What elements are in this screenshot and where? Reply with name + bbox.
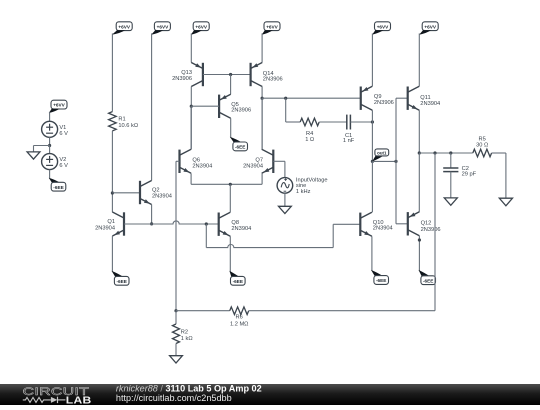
wire Q7 collector [261, 98, 263, 149]
resistor R4 [300, 118, 319, 126]
wire base rail down-right [206, 224, 360, 248]
svg-text:-6EE: -6EE [233, 279, 243, 284]
svg-text:Q2: Q2 [152, 188, 160, 194]
svg-text:+6VV: +6VV [195, 24, 207, 29]
wire Q7 emitter [261, 173, 263, 184]
power flag +6VV (Q13) [191, 22, 209, 35]
node R1/Q2 base/Q1 collector [111, 191, 114, 194]
footer url text [116, 393, 232, 403]
label R6 [230, 315, 248, 328]
node R4/C1 branch [284, 97, 287, 100]
label Q2 [152, 188, 172, 200]
ground (C2) [444, 198, 457, 205]
svg-text:R1: R1 [118, 117, 125, 123]
label Q6 [192, 157, 212, 169]
wire Q9 collector [371, 110, 373, 161]
wire R2 top [175, 311, 177, 324]
svg-text:2N3904: 2N3904 [373, 226, 393, 232]
node Q14 collector / Q7 collector / wire [261, 97, 264, 100]
wire Q10 emitter [371, 236, 373, 270]
wire Q2 emitter [151, 205, 153, 224]
wire Q6 base [176, 161, 180, 310]
resistor R2 [173, 324, 180, 344]
label Q5 [231, 102, 251, 114]
svg-text:2N3906: 2N3906 [172, 76, 192, 82]
resistor R1 [109, 112, 117, 131]
svg-text:Q12: Q12 [421, 220, 432, 226]
power flag +6VV (Q2) [151, 22, 170, 35]
wire Q2 base [112, 192, 140, 194]
svg-text:+6VV: +6VV [157, 24, 169, 29]
label Q7 [243, 157, 263, 169]
voltage source V1 [42, 121, 58, 137]
transistor Q9 [361, 86, 373, 110]
wire Q6 emitter [190, 173, 192, 184]
svg-text:rknicker88 / 3110 Lab 5 Op Amp: rknicker88 / 3110 Lab 5 Op Amp 02 [116, 383, 262, 393]
svg-text:2N3904: 2N3904 [95, 226, 115, 232]
transistor Q1 [112, 212, 124, 236]
svg-text:2N3904: 2N3904 [231, 226, 251, 232]
svg-text:+6VV: +6VV [424, 24, 436, 29]
wire R6 left [176, 310, 230, 312]
source InputVoltage [277, 178, 293, 194]
transistor Q7 [262, 149, 274, 173]
ground (supply) [27, 152, 40, 159]
svg-text:2N3906: 2N3906 [263, 76, 283, 82]
svg-text:2N3904: 2N3904 [243, 164, 263, 170]
ground (InputVoltage) [279, 206, 292, 213]
label Q12 [421, 220, 441, 233]
label R1 [118, 117, 138, 129]
wire Q13-Q14 base rail [203, 74, 251, 76]
wire Q14-Q9 [262, 97, 361, 99]
wire Q13 emitter [190, 33, 192, 62]
wire R4 branch [286, 98, 301, 122]
svg-text:-6EE: -6EE [423, 278, 433, 283]
wire Q8 collector [229, 184, 231, 212]
wire C1 right [350, 121, 372, 123]
wire Q6 collector [190, 106, 192, 149]
wire out1 [372, 160, 396, 162]
wire Q2 collector [151, 33, 153, 180]
node C2 takeoff [449, 151, 452, 154]
svg-text:http://circuitlab.com/c2n5dbb: http://circuitlab.com/c2n5dbb [116, 393, 232, 403]
svg-text:2N3904: 2N3904 [152, 194, 172, 200]
svg-text:2N3904: 2N3904 [192, 164, 212, 170]
svg-text:+6VV: +6VV [266, 24, 278, 29]
voltage source V2 [42, 146, 58, 170]
wire InputVoltage bottom [284, 193, 286, 206]
wire Q9 emitter [371, 33, 373, 86]
power flag +6VV (Q9) [372, 22, 390, 35]
svg-text:1 kHz: 1 kHz [296, 189, 311, 195]
flag out1 [372, 149, 389, 162]
node Q2 emitter / Q1 base [150, 222, 153, 225]
svg-text:+6VV: +6VV [118, 24, 130, 29]
node out1 tee [371, 160, 374, 163]
power flag -6EE (Q5) [230, 137, 248, 151]
transistor Q10 [360, 212, 372, 236]
svg-text:6 V: 6 V [59, 131, 68, 137]
svg-text:2N3906: 2N3906 [231, 108, 251, 114]
wire Q13 collector [190, 87, 192, 150]
resistor R5 [473, 149, 492, 157]
svg-text:-6EE: -6EE [53, 185, 63, 190]
capacitor C1 [347, 115, 351, 130]
wire V1 top [49, 112, 51, 122]
label Q11 [420, 95, 440, 107]
svg-text:6 V: 6 V [59, 163, 68, 169]
capacitor C2 [443, 168, 458, 172]
node Q13/Q5 base/Q6 collector [190, 105, 193, 108]
svg-text:29 pF: 29 pF [462, 171, 477, 177]
svg-text:V1: V1 [59, 125, 66, 131]
wire tail rail [191, 183, 262, 185]
wire Q8 emitter [229, 236, 231, 271]
power flag -6EE (Q8) [229, 271, 245, 285]
wire R4-C1 [319, 121, 347, 123]
svg-text:1 kΩ: 1 kΩ [181, 336, 193, 342]
power flag +6VV (V1 top) [49, 100, 67, 113]
power flag +6VV (R1) [112, 22, 132, 35]
node tail / Q8 collector [229, 183, 232, 186]
transistor Q12 [408, 212, 420, 236]
svg-text:2N3906: 2N3906 [374, 100, 394, 106]
svg-text:-6EE: -6EE [235, 145, 245, 150]
power flag -6EE (Q12) [419, 270, 436, 285]
svg-text:-6EE: -6EE [376, 278, 386, 283]
power flag +6VV (Q11) [419, 22, 438, 35]
svg-text:+6VV: +6VV [377, 24, 389, 29]
svg-text:V2: V2 [59, 157, 66, 163]
transistor Q11 [408, 86, 420, 110]
wire R6 right [249, 310, 435, 312]
wire Q11 base stub [396, 97, 408, 99]
wire to ground [34, 146, 50, 152]
wire Q12 base stub [396, 223, 408, 225]
wire R1 top [111, 33, 113, 111]
node output emitter rail [418, 151, 421, 154]
transistor Q13 [191, 63, 203, 87]
resistor R6 [230, 307, 249, 315]
label R5 [476, 137, 488, 149]
svg-text:1.2 MΩ: 1.2 MΩ [230, 321, 248, 327]
node Q12 collector [418, 238, 421, 241]
wire R5 right [492, 153, 506, 198]
label InputVoltage [296, 178, 328, 195]
power flag +6VV (Q14) [262, 22, 280, 35]
label V1 [59, 125, 68, 137]
node between V1 V2 [48, 144, 51, 147]
svg-text:10.6 kΩ: 10.6 kΩ [118, 123, 138, 129]
svg-text:R6: R6 [236, 315, 243, 321]
wire Q11 collector [418, 33, 420, 86]
transistor Q14 [251, 63, 263, 87]
label C2 [462, 166, 477, 177]
CircuitLab logo [23, 385, 92, 406]
svg-text:Q6: Q6 [192, 157, 200, 163]
node out1 / driver base [394, 160, 397, 163]
transistor Q6 [180, 149, 192, 173]
wire Q12 collector [418, 236, 420, 271]
wire C2 top [450, 153, 452, 168]
label Q1 [95, 219, 115, 231]
node base rail / Q5 emitter [229, 73, 232, 76]
svg-text:R4: R4 [306, 131, 313, 137]
svg-text:LAB: LAB [66, 395, 92, 405]
power flag -6EE (Q1) [112, 271, 130, 285]
wire R1 bottom [111, 131, 113, 212]
wire driver base vertical [395, 98, 397, 224]
label V2 [59, 157, 68, 169]
label R4 [305, 131, 314, 143]
svg-text:1 Ω: 1 Ω [305, 137, 314, 143]
node R2/R6 junction [174, 309, 177, 312]
power flag -6EE (Q10) [371, 270, 389, 285]
wire Q1 emitter [111, 236, 113, 272]
svg-text:+6VV: +6VV [53, 103, 65, 108]
wire V1 bottom [49, 137, 51, 145]
svg-text:R2: R2 [181, 330, 188, 336]
svg-text:Q7: Q7 [255, 157, 263, 163]
transistor Q2 [140, 181, 152, 205]
svg-text:30 Ω: 30 Ω [476, 143, 488, 149]
node base rail to lower rail [205, 222, 208, 225]
wire R6 vertical [434, 153, 436, 311]
wire Q7 base [273, 161, 285, 177]
wire C2 bottom [450, 172, 452, 198]
wire R2 bottom [175, 344, 177, 356]
svg-text:2N3906: 2N3906 [421, 227, 441, 233]
label R2 [181, 330, 193, 342]
label C1 [343, 133, 355, 144]
ground (R5) [499, 198, 512, 206]
node R6 takeoff [433, 151, 436, 154]
wire Q1-Q8 base rail [124, 221, 219, 224]
wire Q14 emitter [261, 33, 263, 62]
footer title text [116, 383, 262, 393]
wire Q5 emitter [230, 75, 232, 95]
label Q13 [172, 70, 192, 82]
label Q9 [374, 94, 394, 106]
wire V2 bottom [49, 170, 51, 179]
svg-text:1 nF: 1 nF [343, 138, 355, 144]
svg-text:Q1: Q1 [107, 219, 115, 225]
footer bar [0, 384, 540, 405]
transistor Q8 [219, 212, 231, 236]
svg-text:out1: out1 [377, 150, 387, 155]
wire Q10 collector [371, 161, 373, 212]
wire Q5 collector [230, 118, 232, 137]
wire output rail [419, 152, 473, 154]
wire Q12 emitter [418, 153, 420, 212]
svg-text:-6EE: -6EE [116, 279, 126, 284]
node C1 / Q9 collector [371, 120, 374, 123]
wire Q14 collector [261, 87, 263, 150]
wire Q5 base [191, 105, 219, 107]
label Q14 [263, 71, 283, 82]
power flag -6EE (V2 bottom) [49, 178, 66, 191]
label Q8 [231, 220, 251, 232]
wire Q11 emitter [418, 110, 420, 153]
transistor Q5 [219, 94, 231, 118]
ground (R2) [170, 356, 183, 363]
label Q10 [373, 220, 393, 232]
svg-text:2N3904: 2N3904 [420, 101, 440, 107]
